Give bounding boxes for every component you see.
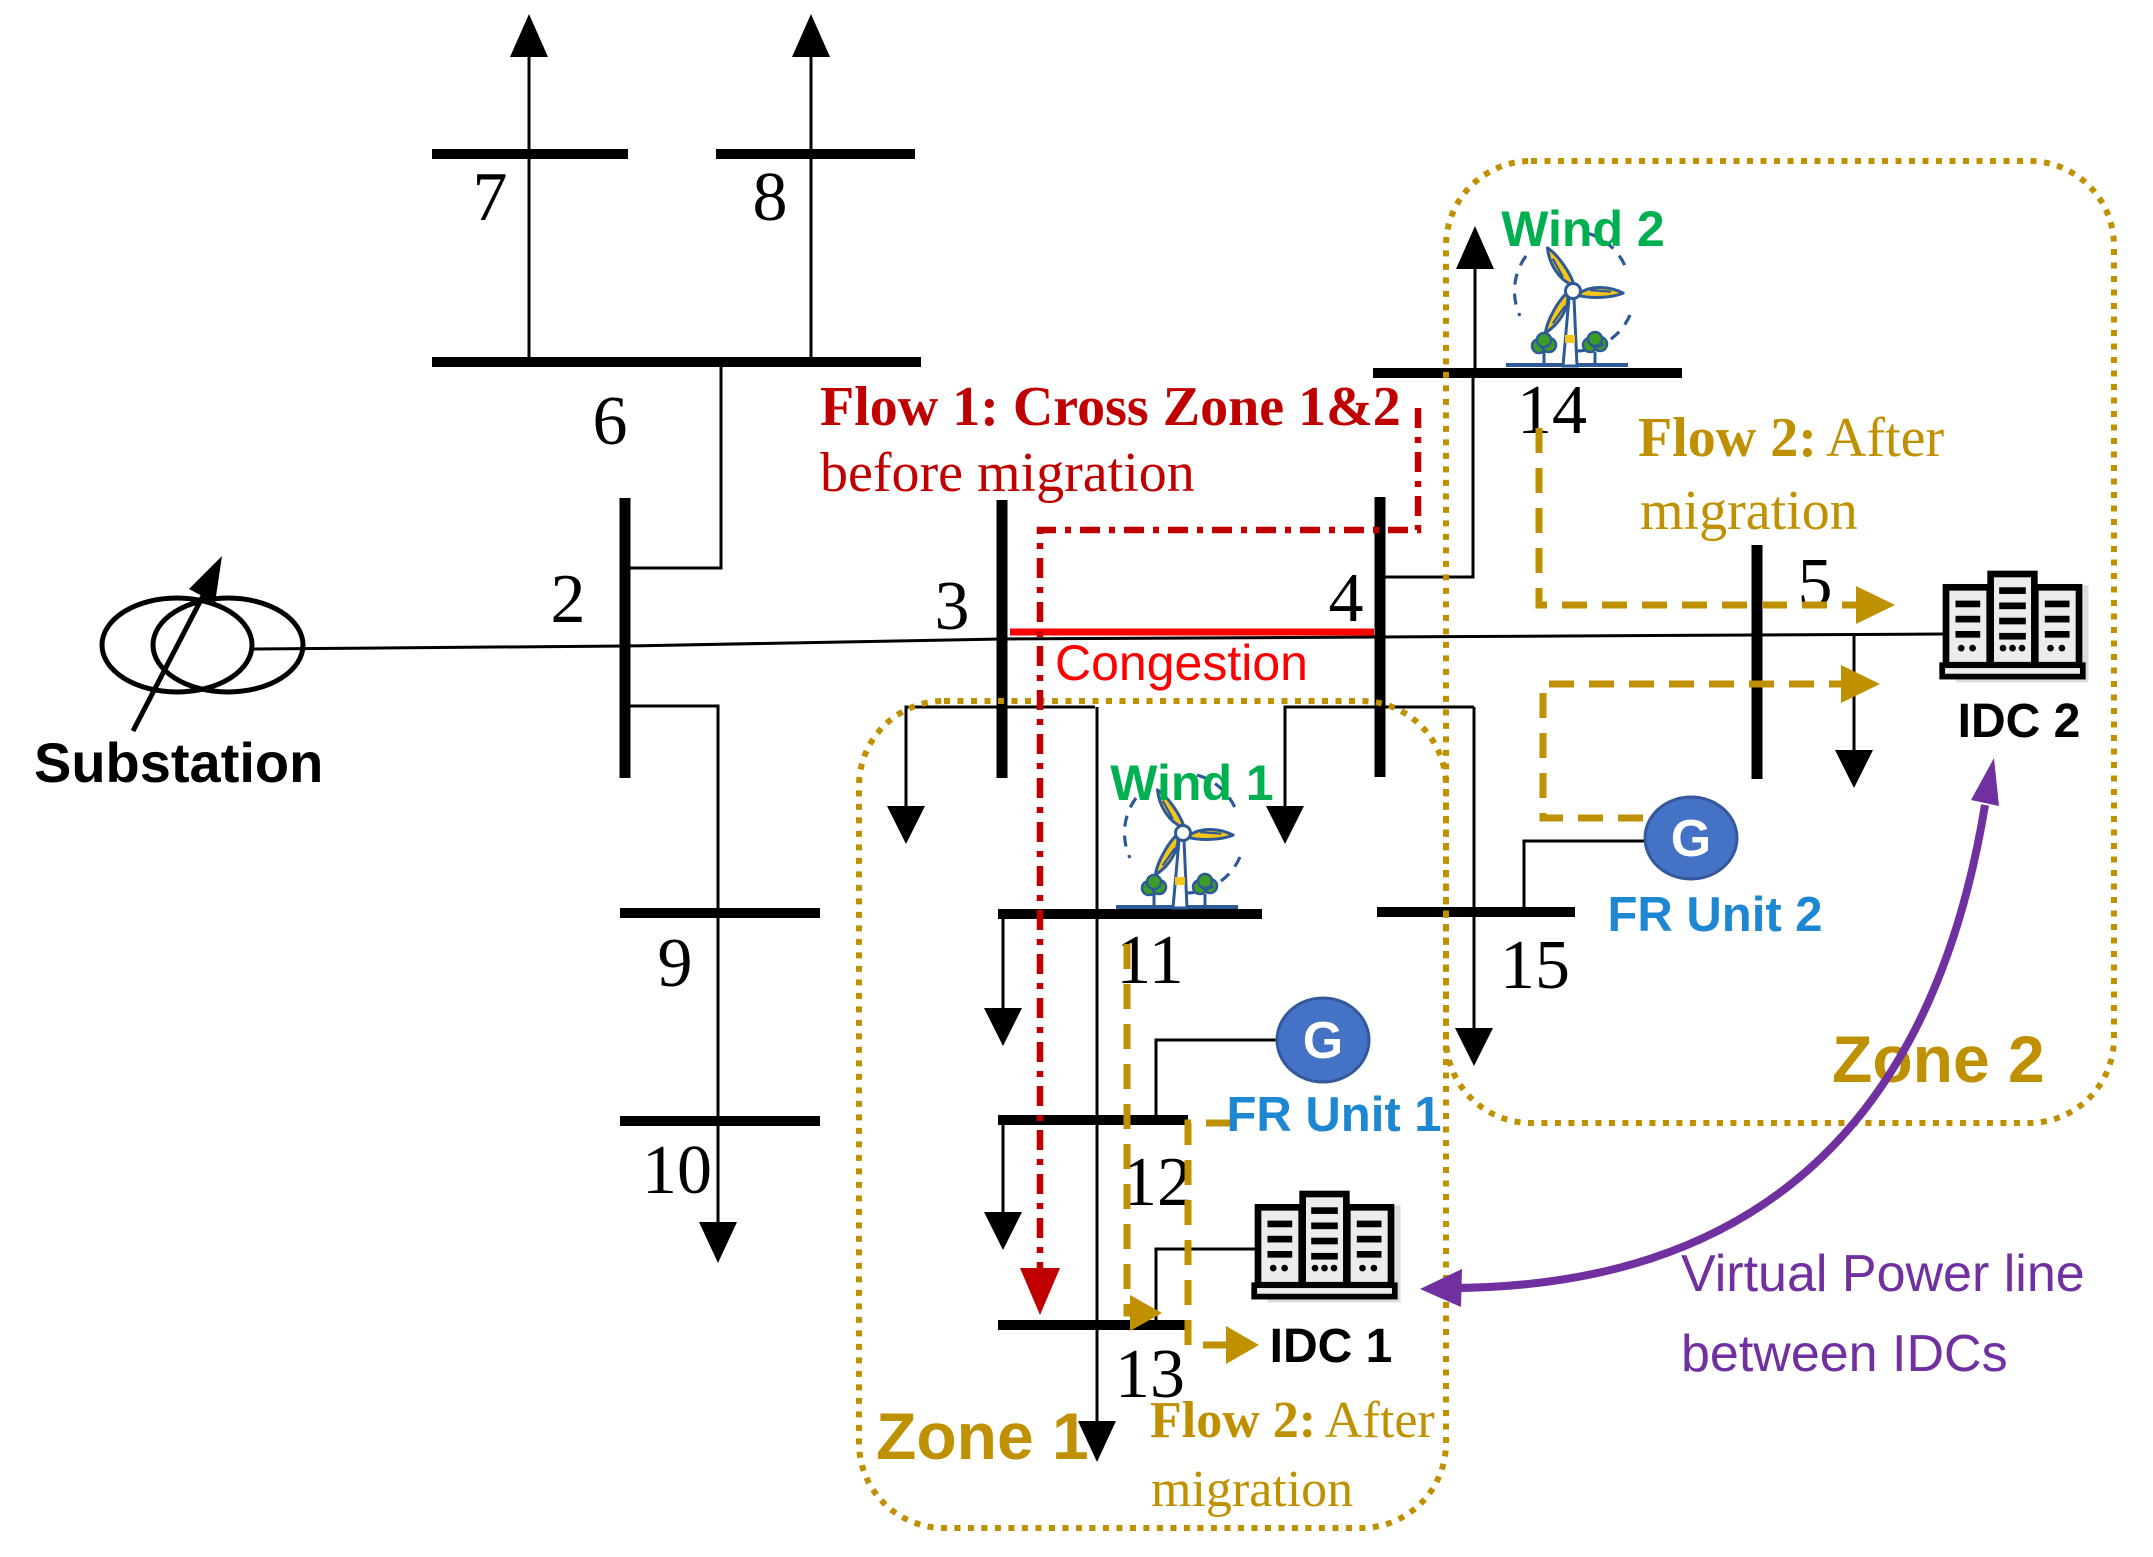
congestion line 3-4 [1010,629,1374,636]
label FR Unit 2 [1607,888,1822,942]
wire: main transmission line substation-2-3-4-5-IDC2 [253,634,1944,649]
wire: bus 4 to bus 14 [1385,373,1473,577]
label Substation [34,731,323,794]
node 5 label [1798,545,1833,622]
IDC 1 icon [1254,1194,1400,1302]
flow 2 path zone 2 upper (bus 14 to IDC 2) [1539,428,1895,624]
svg-text:Zone 1: Zone 1 [876,1399,1089,1473]
wire: bus 15 to FR Unit 2 [1524,841,1645,912]
node 12 label [1122,1144,1192,1221]
svg-text:migration: migration [1640,480,1858,542]
svg-text:After: After [1826,407,1945,469]
node 11 label [1116,922,1183,999]
wire: bus 14 generation arrow up [1456,226,1494,373]
bus 10 [620,1116,820,1126]
label Congestion [1055,635,1308,691]
svg-text:before migration: before migration [820,442,1195,504]
bus 13 [998,1320,1188,1330]
generator FR Unit 1 [1277,998,1369,1082]
label Wind 2 [1501,201,1664,257]
label Flow 1 line 2 [820,442,1195,504]
virtual power line purple arrow between IDCs [1420,758,1999,1307]
bus 5 [1752,545,1763,779]
wire: bus 13 to IDC 1 [1156,1249,1258,1325]
node 8 label [753,159,788,236]
bus 12 [998,1115,1188,1125]
wire: line 4-15 and load arrow below bus 15 [1455,707,1493,1066]
generator FR Unit 2 [1645,797,1737,879]
svg-text:FR Unit 1: FR Unit 1 [1226,1088,1441,1142]
svg-text:After: After [1325,1392,1435,1449]
node 9 label [658,925,693,1002]
svg-text:Zone 2: Zone 2 [1832,1022,2045,1096]
transformer: substation symbol [102,556,303,731]
label FR Unit 1 [1226,1088,1441,1142]
label Wind 1 [1110,755,1273,811]
label Flow 2 zone 1 line 1 [1150,1392,1435,1449]
node 4 label [1329,560,1364,637]
svg-text:9: 9 [658,925,693,1002]
svg-text:Virtual Power line: Virtual Power line [1681,1245,2085,1303]
wire: bus 3 load arrow [887,707,1095,844]
node 7 label [473,159,508,236]
svg-text:Flow 1: Cross Zone 1&2: Flow 1: Cross Zone 1&2 [820,376,1401,438]
svg-text:Flow 2:: Flow 2: [1150,1392,1316,1449]
node 15 label [1500,927,1570,1004]
label Virtual Power line between IDCs [1681,1245,2085,1383]
wire: bus 2 down to buses 9 and 10 with load arrow [629,706,737,1263]
svg-text:Wind 1: Wind 1 [1110,755,1273,811]
wire: bus 11 load arrow [984,914,1022,1046]
bus 4 [1375,497,1386,777]
svg-text:FR Unit 2: FR Unit 2 [1607,888,1822,942]
label Flow 1 line 1 [820,376,1401,438]
svg-text:Substation: Substation [34,731,323,794]
bus 11 [998,909,1262,919]
flow 2 path zone 1 main (bus 11 down to bus 13) [1127,944,1162,1331]
bus 2 [620,498,631,778]
svg-text:migration: migration [1151,1461,1353,1518]
svg-text:12: 12 [1122,1144,1192,1221]
node 6 label [593,383,628,460]
node 3 label [935,568,970,645]
wire: bus 12 load arrow [984,1120,1022,1250]
bus 7 [432,149,628,159]
wire: bus 7 riser with load arrow up [510,14,548,362]
svg-text:IDC 2: IDC 2 [1958,695,2081,748]
svg-text:8: 8 [753,159,788,236]
svg-text:15: 15 [1500,927,1570,1004]
wire: bus 4 load arrow [1266,707,1474,844]
wind turbine icon Wind 2 [1506,233,1630,366]
label Zone 2 [1832,1022,2045,1096]
bus 15 [1377,907,1575,917]
label Flow 2 zone 2 line 1 [1638,407,1945,469]
svg-text:between IDCs: between IDCs [1681,1325,2008,1383]
svg-text:10: 10 [642,1132,712,1209]
svg-text:Wind 2: Wind 2 [1501,201,1664,257]
bus 3 [997,500,1008,778]
flow 2 path zone 2 lower (FR Unit 2 to IDC 2) [1543,665,1880,818]
label IDC 2 [1958,695,2081,748]
node 2 label [551,561,586,638]
svg-text:2: 2 [551,561,586,638]
flow 2 path zone 1 (FR Unit 1 to bus 13 to IDC 1) [1188,1123,1259,1364]
svg-text:6: 6 [593,383,628,460]
zone 2 boundary [1446,161,2114,1123]
svg-text:G: G [1303,1012,1343,1070]
bus 14 [1373,368,1682,378]
node 13 label [1115,1336,1185,1413]
svg-text:Flow 2:: Flow 2: [1638,407,1817,469]
svg-text:4: 4 [1329,560,1364,637]
svg-text:3: 3 [935,568,970,645]
wire: bus 2 to bus 6 [629,362,721,568]
svg-text:14: 14 [1517,372,1587,449]
label Flow 2 zone 2 line 2 [1640,480,1858,542]
bus 9 [620,908,820,918]
label Flow 2 zone 1 line 2 [1151,1461,1353,1518]
svg-text:Congestion: Congestion [1055,635,1308,691]
label IDC 1 [1270,1320,1393,1373]
node 14 label [1517,372,1587,449]
flow 1 path (red dash-dot) with down arrow [1020,408,1418,1315]
svg-text:7: 7 [473,159,508,236]
wire: bus 8 riser with load arrow up [792,14,830,362]
bus 8 [716,149,915,159]
zone 1 boundary [859,701,1446,1528]
label Zone 1 [876,1399,1089,1473]
wind turbine icon Wind 1 [1116,775,1240,908]
svg-text:5: 5 [1798,545,1833,622]
node 10 label [642,1132,712,1209]
svg-text:IDC 1: IDC 1 [1270,1320,1393,1373]
IDC 2 icon [1942,574,2088,682]
wire: line 3-11-13 spine with load arrow below 13 [1078,707,1116,1462]
svg-text:G: G [1671,810,1711,868]
wire: load arrow between bus 5 and IDC 2 [1835,634,1873,788]
bus 6 [432,357,921,367]
wire: bus 12 to FR Unit 1 [1156,1040,1278,1120]
